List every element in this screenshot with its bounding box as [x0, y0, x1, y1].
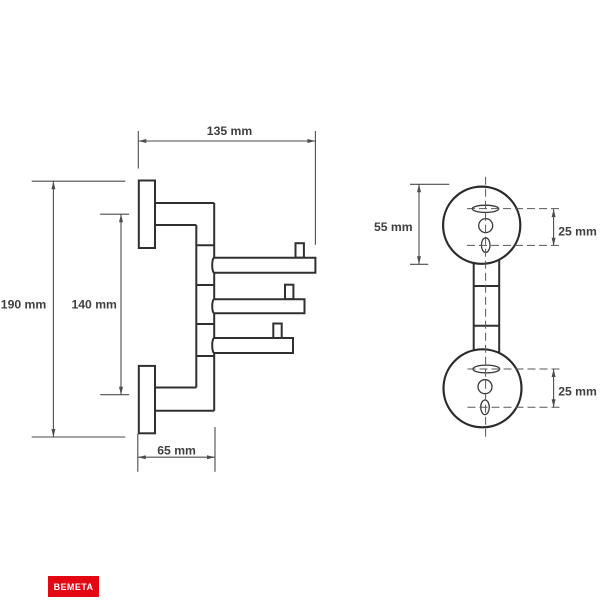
dimension 140 mm arrowheads — [119, 214, 123, 395]
connecting bar division lines — [474, 286, 500, 326]
top connector arm outline — [155, 203, 214, 225]
dimension 65 mm line — [138, 456, 215, 458]
svg-text:55 mm: 55 mm — [374, 220, 413, 234]
bottom connector arm outline — [155, 388, 214, 411]
hook arm 1 (top) — [212, 258, 315, 273]
svg-text:135 mm: 135 mm — [207, 124, 253, 138]
centerline through top slot — [467, 208, 563, 210]
dimension 190 mm line — [52, 181, 54, 437]
dimension 65 mm extension lines — [138, 427, 215, 472]
dimension 25 mm top line — [553, 209, 555, 246]
centerline through bottom oval hole — [468, 406, 562, 408]
svg-text:190 mm: 190 mm — [1, 298, 47, 312]
top screw hole — [479, 219, 493, 233]
bottom screw hole — [478, 380, 492, 394]
dimension 140 mm extension lines — [100, 214, 129, 395]
dimension 55 mm extension lines — [410, 184, 449, 264]
swivel post edges — [196, 203, 214, 411]
svg-text:25 mm: 25 mm — [558, 384, 597, 398]
dimension 135 mm extension lines — [138, 131, 315, 245]
dimension 25 mm bottom arrowheads — [552, 369, 556, 407]
dimension 140 mm line — [120, 214, 122, 395]
centerline through top oval hole — [467, 244, 563, 246]
dimension 135 mm line — [138, 140, 315, 142]
BEMETA logo — [48, 576, 99, 597]
bottom oval hole — [481, 400, 490, 415]
peg on hook arm 3 — [273, 324, 281, 339]
post division lines — [196, 245, 214, 356]
svg-text:25 mm: 25 mm — [558, 224, 597, 238]
peg on hook arm 2 — [285, 285, 293, 300]
svg-text:140 mm: 140 mm — [71, 298, 117, 312]
connecting bar (front view) — [474, 260, 500, 354]
dimension 55 mm arrowheads — [417, 184, 421, 264]
bottom rosette circle (front view) — [444, 349, 522, 427]
dimension 25 mm top arrowheads — [552, 209, 556, 246]
hook arm 3 (bottom) — [212, 338, 293, 353]
hook arm 2 (middle) — [212, 299, 304, 313]
wall plate top (side view) — [139, 181, 155, 249]
centerline through bottom slot — [468, 368, 562, 370]
dimension 190 mm extension lines — [32, 181, 126, 437]
top mounting slot — [472, 205, 499, 212]
top oval hole — [481, 238, 490, 253]
peg on hook arm 1 — [296, 243, 304, 258]
dimension 190 mm arrowheads — [51, 181, 55, 437]
bottom mounting slot — [473, 365, 500, 373]
dimension 135 mm arrowheads — [138, 139, 315, 143]
dimension 25 mm bottom line — [553, 369, 555, 407]
dimension 65 mm arrowheads — [138, 455, 215, 459]
wall plate bottom (side view) — [139, 366, 155, 433]
centerline vertical (front view) — [485, 177, 487, 437]
top rosette circle (front view) — [443, 187, 520, 264]
dimension 55 mm line — [418, 184, 420, 264]
svg-text:65 mm: 65 mm — [157, 444, 196, 458]
